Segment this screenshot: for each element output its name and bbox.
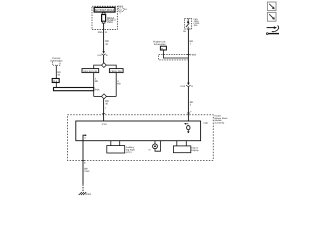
fusible link schematics label <box>153 40 166 46</box>
svg-text:250A: 250A <box>107 21 113 24</box>
svg-text:RD: RD <box>95 80 99 83</box>
svg-text:42: 42 <box>105 43 108 46</box>
splice S-30A dashed enclosure <box>159 54 188 60</box>
svg-text:F8DA 30A FUSE: F8DA 30A FUSE <box>83 70 98 73</box>
svg-text:Schematics: Schematics <box>154 43 167 46</box>
svg-text:1150: 1150 <box>84 170 90 173</box>
svg-text:A1: A1 <box>119 9 122 12</box>
svg-text:Display: Display <box>191 149 199 152</box>
left feed: charging schematics reference <box>50 57 63 63</box>
svg-text:G301: G301 <box>85 193 91 196</box>
control module solid block <box>76 121 201 141</box>
inline connector X110 (arrow) <box>180 83 193 89</box>
module name (right of dashed box) <box>215 115 228 125</box>
viewer icon: zoom out button <box>267 12 276 21</box>
connector label X50-A / B <box>98 31 107 34</box>
svg-text:(Controls): (Controls) <box>215 122 225 125</box>
svg-text:S-30A: S-30A <box>190 53 197 56</box>
right branch wire down <box>115 73 117 97</box>
svg-text:B+: B+ <box>183 30 187 33</box>
dashed reference stub <box>53 62 60 66</box>
fusible link box <box>52 79 59 83</box>
svg-text:1: 1 <box>190 42 192 45</box>
viewer icon: zoom in button <box>267 2 276 11</box>
wire connector to top diamond <box>103 55 105 63</box>
svg-text:M: M <box>149 149 151 152</box>
svg-text:BAT 30 BUS RD BLK: BAT 30 BUS RD BLK <box>95 8 114 12</box>
svg-text:B: B <box>191 85 193 88</box>
wire label RD 40 <box>105 100 109 106</box>
svg-text:1: 1 <box>105 106 107 109</box>
aux power module (hanging, left) <box>107 141 125 153</box>
svg-text:X50-A: X50-A <box>98 31 105 34</box>
splice diamond (top) <box>102 63 107 68</box>
ground wire from switch box <box>82 141 84 185</box>
svg-text:(ATC): (ATC) <box>126 151 132 154</box>
wire from fusible link to main wire <box>163 50 188 58</box>
viewer icon: pan arrow <box>266 25 279 34</box>
branch tee wires to two fuses <box>94 65 117 69</box>
svg-text:B: B <box>106 54 108 57</box>
inline connector (arrow) on main wire <box>97 51 108 57</box>
label 2 RD (left branch) <box>95 77 99 83</box>
wire label RD 42 <box>105 40 109 46</box>
wire to module (right) <box>187 87 189 121</box>
blower motor (circle M) <box>149 141 161 152</box>
svg-text:C: C <box>120 11 122 14</box>
splice diamond (bottom) <box>94 95 117 97</box>
wire from fusible link to bus bar <box>55 83 57 88</box>
wire label RD 40 <box>57 71 61 77</box>
dashed ground segment <box>82 184 84 192</box>
wire from reference to fusible link <box>55 65 57 78</box>
right feed wire <box>187 29 189 83</box>
circuit breaker / starter feed (top right, dashed) <box>184 18 191 29</box>
svg-text:F: F <box>190 111 192 114</box>
svg-text:P4A: P4A <box>95 88 100 91</box>
svg-text:Logic: Logic <box>203 121 208 124</box>
fusible link box (left of splice) <box>160 46 166 50</box>
HVAC module dashed enclosure <box>67 115 213 161</box>
internal output arrow A (left) <box>83 134 87 141</box>
svg-text:40: 40 <box>105 102 108 105</box>
svg-text:40: 40 <box>57 74 60 77</box>
display unit labels <box>191 146 199 151</box>
svg-text:2: 2 <box>190 104 192 107</box>
fuse F8DA (left) <box>82 69 99 73</box>
wire label RD 2 <box>190 101 194 107</box>
svg-text:RD: RD <box>117 83 121 86</box>
svg-text:B: B <box>105 31 107 34</box>
pin tick F <box>187 112 190 114</box>
ground G301 <box>79 192 87 195</box>
left branch wire down <box>93 73 95 97</box>
internal driver element (right) <box>184 123 190 133</box>
label 4 RD (right branch) <box>117 80 121 86</box>
pin tick B at dashed crossing <box>82 159 85 161</box>
svg-text:X50A: X50A <box>118 5 124 8</box>
svg-text:Fusible Link: Fusible Link <box>153 40 166 43</box>
wire to module <box>103 99 105 121</box>
fuse F (MEGA fuse) <box>102 12 106 23</box>
svg-text:X110: X110 <box>180 85 186 88</box>
fuse F8DB (right) <box>109 69 123 73</box>
svg-text:A10: A10 <box>97 54 102 57</box>
wire label BN 1150 <box>84 168 90 174</box>
wire from fuse to splice <box>103 23 105 52</box>
svg-text:B-1: B-1 <box>124 8 128 11</box>
svg-text:Schematics: Schematics <box>50 59 63 62</box>
fuse value label <box>107 17 116 24</box>
display unit (hanging, right) <box>173 141 190 153</box>
junction block name box <box>94 7 115 12</box>
connector X50A label (top right of block) <box>118 5 128 14</box>
svg-text:B: B <box>84 161 86 164</box>
svg-text:F8DB 30A: F8DB 30A <box>110 70 122 73</box>
svg-text:30A: 30A <box>194 24 198 27</box>
blower resistor labels <box>126 146 135 154</box>
breaker labels <box>194 18 200 27</box>
wire label RD 1 <box>190 40 194 46</box>
bus bar P4A <box>54 88 94 91</box>
svg-text:C1H: C1H <box>102 123 107 126</box>
splice tick and label S-30A <box>187 53 190 55</box>
battery junction block (dashed enclosure) <box>92 6 117 29</box>
